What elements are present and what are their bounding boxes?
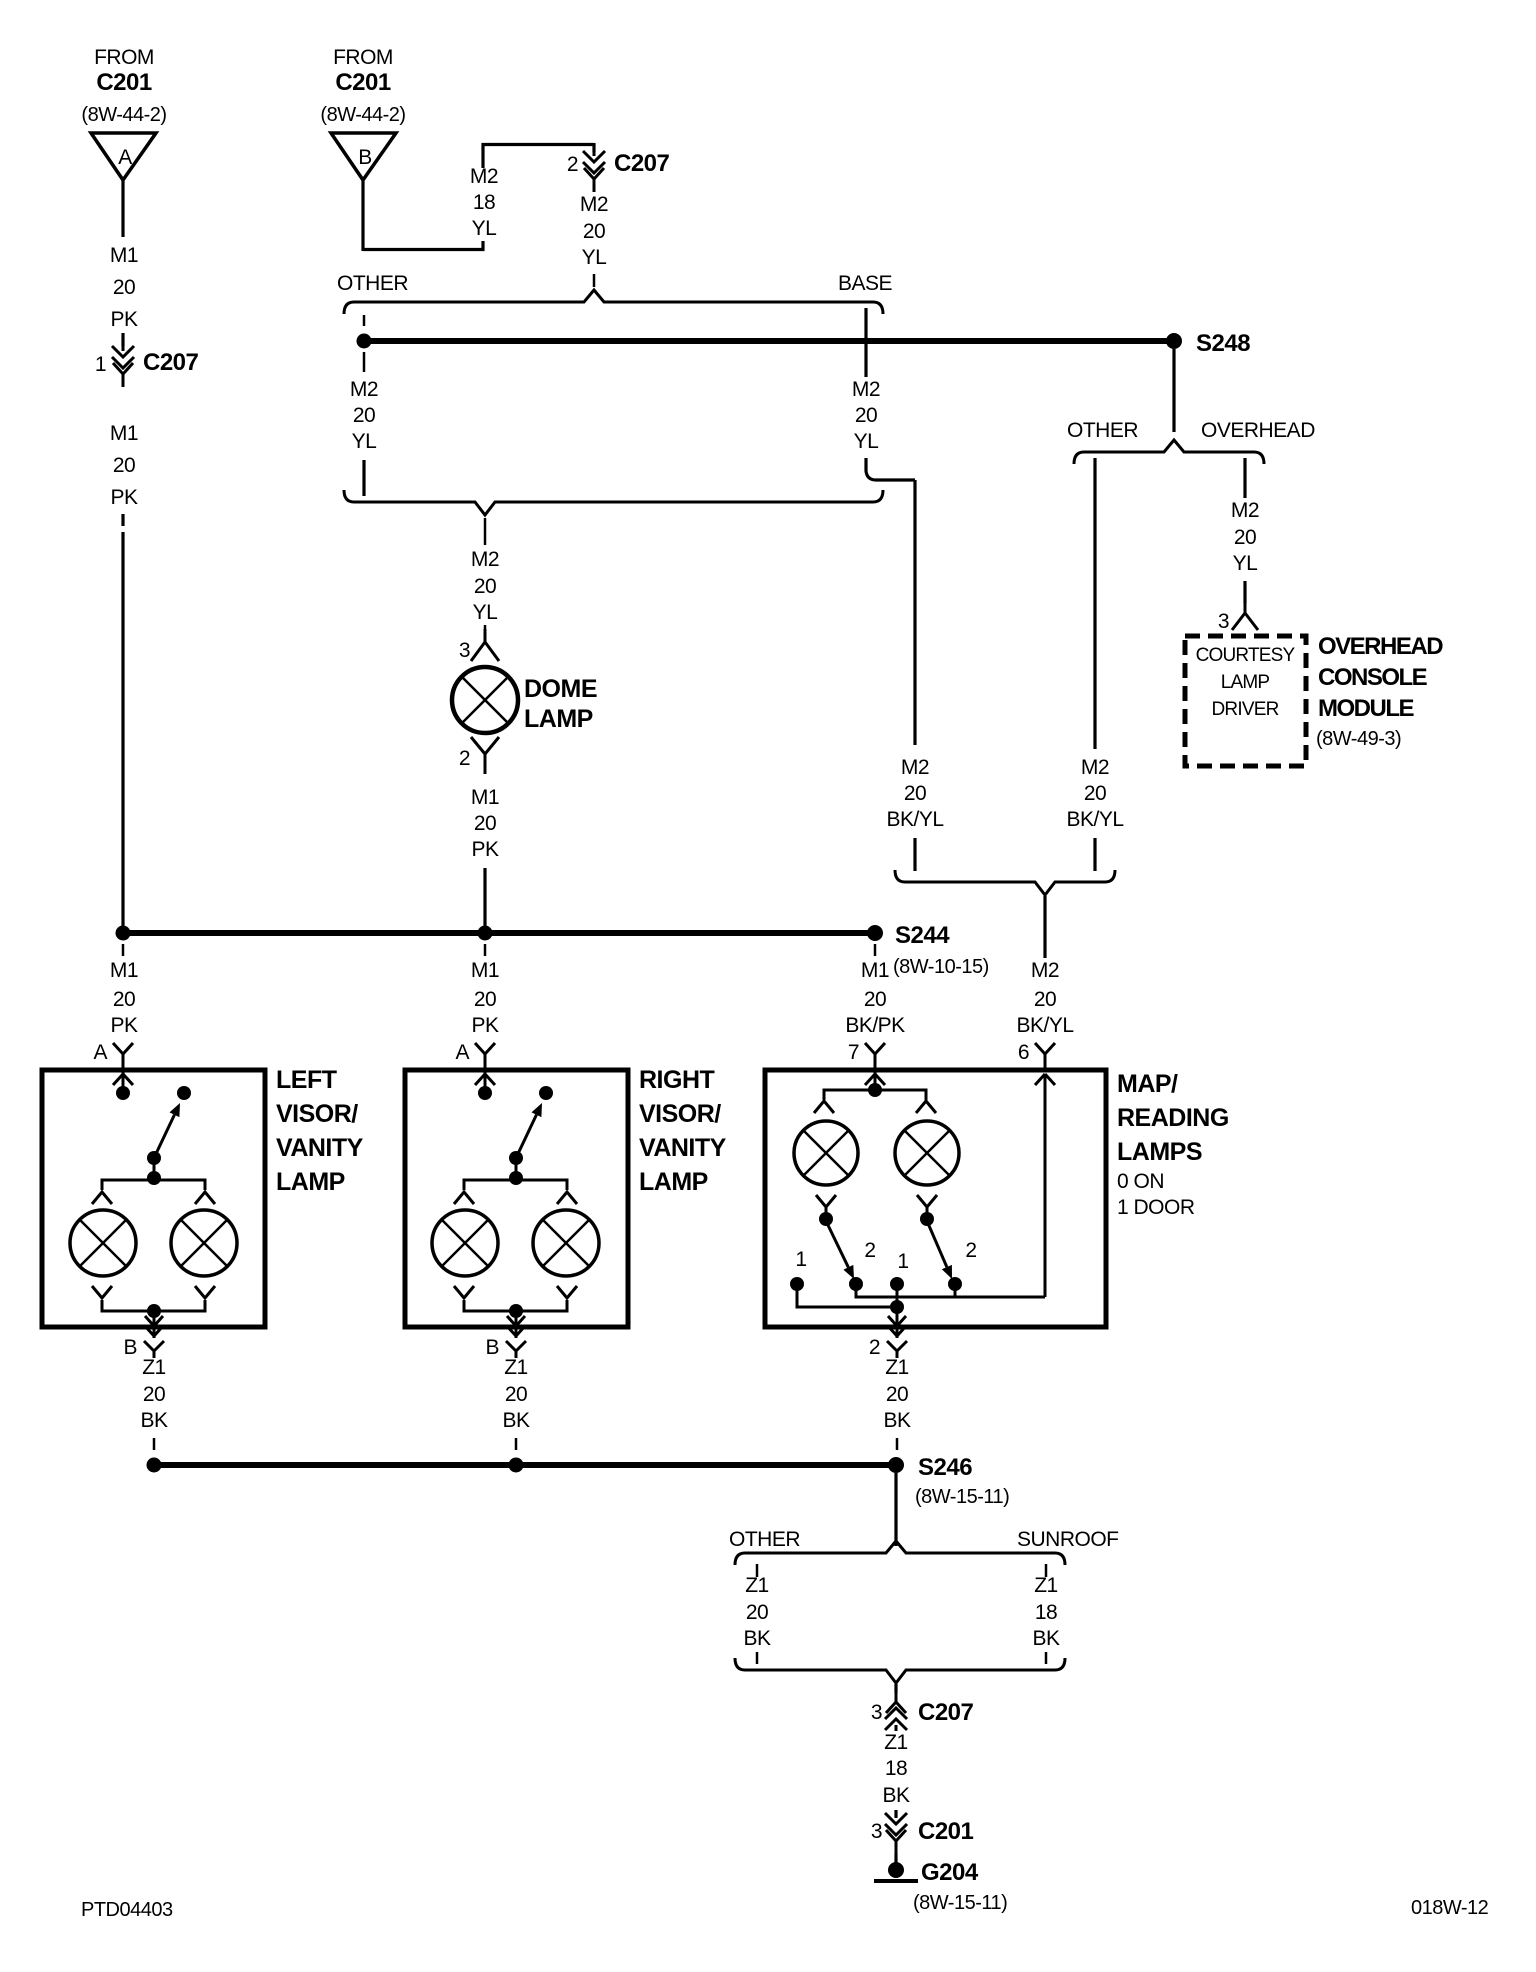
svg-text:PTD04403: PTD04403 xyxy=(81,1899,173,1921)
splice dot S244 middle xyxy=(478,926,493,941)
svg-text:BK: BK xyxy=(743,1627,771,1650)
wire dash below S244 middle xyxy=(484,944,487,956)
svg-text:S248: S248 xyxy=(1196,330,1250,357)
svg-text:B: B xyxy=(358,146,372,169)
splice bus wire S244 xyxy=(123,930,875,936)
svg-text:A: A xyxy=(455,1041,469,1064)
svg-text:1: 1 xyxy=(897,1250,908,1273)
map lamp 1 switch arm xyxy=(826,1221,848,1267)
svg-text:Z1: Z1 xyxy=(745,1574,769,1597)
right visor lamp bottom terminals xyxy=(454,1286,474,1298)
svg-text:BK/YL: BK/YL xyxy=(1066,808,1123,831)
right visor lamp 2 xyxy=(533,1210,599,1276)
wire from OTHER branch to merge bracket xyxy=(362,460,365,496)
connector C207 pin 1 xyxy=(122,345,125,351)
overhead console module box (dashed) xyxy=(1185,636,1306,766)
svg-text:S246: S246 xyxy=(918,1454,972,1481)
svg-text:6: 6 xyxy=(1018,1041,1029,1064)
svg-text:20: 20 xyxy=(474,988,496,1011)
svg-text:BK/YL: BK/YL xyxy=(1016,1014,1073,1037)
wire dash above split brace xyxy=(593,274,596,287)
splice dot S248 xyxy=(1166,333,1182,349)
splice dot S246 xyxy=(888,1457,904,1473)
wire from splice S248 down xyxy=(1172,349,1175,432)
pin fork at dome lamp pin 2 xyxy=(471,737,499,754)
wire from dome lamp to splice S244 xyxy=(483,868,486,926)
svg-text:C207: C207 xyxy=(143,349,199,376)
svg-text:PK: PK xyxy=(471,838,499,861)
right visor switch contact from pin A xyxy=(478,1086,492,1100)
svg-text:BASE: BASE xyxy=(838,272,893,295)
svg-text:LAMPS: LAMPS xyxy=(1117,1138,1202,1166)
svg-text:M2: M2 xyxy=(901,756,929,779)
svg-text:BK: BK xyxy=(883,1409,911,1432)
svg-text:M1: M1 xyxy=(110,959,138,982)
svg-text:BK: BK xyxy=(502,1409,530,1432)
split bracket OTHER/SUNROOF xyxy=(735,1541,1065,1565)
map switch contact 1 right xyxy=(890,1277,904,1291)
map lamps top terminals xyxy=(814,1101,834,1113)
svg-text:2: 2 xyxy=(567,153,578,176)
svg-text:20: 20 xyxy=(886,1383,908,1406)
pin fork at dome lamp pin 3 xyxy=(484,629,487,642)
left visor switch contact right xyxy=(177,1086,191,1100)
wire from S246 down xyxy=(894,1473,897,1546)
svg-text:COURTESY: COURTESY xyxy=(1196,645,1296,666)
pin 7 into map reading lamps box xyxy=(865,1043,885,1054)
svg-text:18: 18 xyxy=(473,191,495,214)
svg-text:20: 20 xyxy=(864,988,886,1011)
svg-text:VISOR/: VISOR/ xyxy=(639,1100,721,1128)
svg-text:C201: C201 xyxy=(96,69,152,96)
svg-text:C201: C201 xyxy=(918,1818,974,1845)
right visor lamp top terminals xyxy=(454,1192,474,1204)
left visor lamp 2 xyxy=(171,1210,237,1276)
connector C207 pin 3 xyxy=(895,1725,898,1731)
wire from triangle A down xyxy=(121,180,124,237)
right visor lamp 1 xyxy=(432,1210,498,1276)
map switch contact 2 right xyxy=(948,1277,962,1291)
left visor switch pivot xyxy=(147,1151,161,1165)
wire dash above S246 middle xyxy=(515,1438,518,1450)
left visor switch contact from pin A xyxy=(116,1086,130,1100)
merge bracket OTHER/BASE to dome xyxy=(344,490,883,515)
svg-text:M2: M2 xyxy=(580,193,608,216)
svg-text:YL: YL xyxy=(472,217,497,240)
svg-text:M1: M1 xyxy=(471,959,499,982)
svg-text:M1: M1 xyxy=(110,422,138,445)
connector C207 pin 2 xyxy=(593,150,596,156)
svg-text:Z1: Z1 xyxy=(885,1356,909,1379)
svg-text:20: 20 xyxy=(1034,988,1056,1011)
svg-text:M2: M2 xyxy=(350,378,378,401)
wire below label left riser xyxy=(913,838,916,871)
right visor switch pivot xyxy=(509,1151,523,1165)
map switch contact 1 left xyxy=(790,1277,804,1291)
svg-text:B: B xyxy=(123,1336,137,1359)
right visor switch contact right xyxy=(539,1086,553,1100)
right visor switch arm xyxy=(516,1115,536,1158)
left visor vanity lamp box xyxy=(42,1070,265,1327)
wire dash below Z1 20 BK xyxy=(756,1652,759,1664)
svg-text:Z1: Z1 xyxy=(504,1356,528,1379)
left visor lamp bracket top xyxy=(102,1180,205,1190)
svg-text:BK: BK xyxy=(1032,1627,1060,1650)
svg-text:YL: YL xyxy=(1233,552,1258,575)
wire dash below S244 left xyxy=(122,944,125,956)
map switch contact 2 left xyxy=(849,1277,863,1291)
svg-text:DRIVER: DRIVER xyxy=(1212,699,1279,720)
splice bus wire S248 xyxy=(364,338,1174,344)
svg-text:20: 20 xyxy=(505,1383,527,1406)
wire stub into C207 pin 2 xyxy=(592,143,595,152)
wire from triangle B down xyxy=(361,180,364,251)
svg-text:YL: YL xyxy=(854,430,879,453)
map lamp 2 switch arm xyxy=(927,1221,947,1267)
svg-text:SUNROOF: SUNROOF xyxy=(1017,1528,1119,1551)
svg-text:G204: G204 xyxy=(921,1859,979,1886)
left visor lamp top terminals xyxy=(92,1192,112,1204)
off-page connector triangle A xyxy=(91,133,156,180)
svg-text:BK/YL: BK/YL xyxy=(886,808,943,831)
wire connecting position-2 contacts xyxy=(856,1284,1045,1297)
svg-text:20: 20 xyxy=(1084,782,1106,805)
svg-text:C201: C201 xyxy=(335,69,391,96)
svg-text:VANITY: VANITY xyxy=(639,1134,727,1162)
svg-text:20: 20 xyxy=(855,404,877,427)
svg-text:20: 20 xyxy=(746,1601,768,1624)
wire BASE branch crossing bus xyxy=(864,308,867,377)
map lamp bottom terminals xyxy=(816,1195,836,1207)
svg-text:OTHER: OTHER xyxy=(729,1528,800,1551)
pin into left visor lamp box xyxy=(113,1043,133,1054)
svg-text:Z1: Z1 xyxy=(884,1731,908,1754)
wire from contact row to pin 2 xyxy=(896,1284,899,1311)
svg-text:BK: BK xyxy=(140,1409,168,1432)
svg-text:1 DOOR: 1 DOOR xyxy=(1117,1196,1195,1219)
svg-text:20: 20 xyxy=(353,404,375,427)
pin B out of right visor box xyxy=(515,1311,518,1338)
svg-text:FROM: FROM xyxy=(94,46,154,69)
svg-text:M2: M2 xyxy=(470,165,498,188)
svg-text:C207: C207 xyxy=(918,1699,974,1726)
pin 6 into map reading lamps box xyxy=(1035,1043,1055,1054)
map lamp 2 xyxy=(895,1121,959,1185)
wire from C207 pin 1 down to splice S244 xyxy=(121,532,124,926)
map lamp 2 switch input dot xyxy=(926,1207,929,1214)
svg-text:LAMP: LAMP xyxy=(639,1168,708,1196)
svg-text:OVERHEAD: OVERHEAD xyxy=(1201,419,1315,442)
wire dash below Z1 18 BK xyxy=(1045,1652,1048,1664)
svg-text:20: 20 xyxy=(143,1383,165,1406)
svg-text:M2: M2 xyxy=(852,378,880,401)
svg-text:2: 2 xyxy=(965,1239,976,1262)
svg-text:(8W-10-15): (8W-10-15) xyxy=(893,956,989,978)
svg-text:READING: READING xyxy=(1117,1104,1229,1132)
svg-text:1: 1 xyxy=(795,1248,806,1271)
svg-text:20: 20 xyxy=(1234,526,1256,549)
svg-text:M1: M1 xyxy=(110,244,138,267)
wire dash from merge bracket down xyxy=(484,518,487,545)
left visor lamp bracket bottom xyxy=(102,1300,205,1311)
split bracket OTHER/BASE xyxy=(344,290,883,314)
svg-text:M1: M1 xyxy=(471,786,499,809)
svg-text:BK: BK xyxy=(882,1784,910,1807)
svg-text:(8W-15-11): (8W-15-11) xyxy=(913,1892,1007,1914)
left visor switch arm xyxy=(154,1115,174,1158)
splice dot S246 middle xyxy=(509,1458,524,1473)
left visor lamp bottom terminals xyxy=(92,1286,112,1298)
wire below label right riser xyxy=(1093,838,1096,871)
wire dash below S244 right xyxy=(874,944,877,956)
svg-text:M2: M2 xyxy=(1231,499,1259,522)
svg-text:BK/PK: BK/PK xyxy=(845,1014,905,1037)
svg-text:20: 20 xyxy=(113,276,135,299)
svg-text:DOME: DOME xyxy=(524,675,597,703)
svg-text:Z1: Z1 xyxy=(1034,1574,1058,1597)
wire OTHER option of S248 down at x=1095 xyxy=(1093,458,1096,749)
svg-text:FROM: FROM xyxy=(333,46,393,69)
map lamps feed junction dot xyxy=(868,1083,882,1097)
split bracket OTHER/OVERHEAD xyxy=(1074,440,1264,464)
svg-text:VISOR/: VISOR/ xyxy=(276,1100,358,1128)
map lamps output junction dot xyxy=(890,1300,904,1314)
wire BASE branch elbow to x=915 xyxy=(866,458,915,480)
svg-text:M1: M1 xyxy=(861,959,889,982)
wire across top to C207 pin 2 xyxy=(482,143,595,146)
svg-text:2: 2 xyxy=(459,747,470,770)
wire connecting position-1 contacts xyxy=(797,1284,897,1307)
splice bus wire S246 xyxy=(154,1462,896,1468)
svg-text:20: 20 xyxy=(474,575,496,598)
wire dash above S246 right xyxy=(896,1438,899,1450)
svg-text:PK: PK xyxy=(471,1014,499,1037)
map lamp 1 xyxy=(794,1121,858,1185)
svg-text:YL: YL xyxy=(582,246,607,269)
right visor lamp bracket top xyxy=(464,1180,567,1190)
svg-text:M2: M2 xyxy=(1031,959,1059,982)
map reading lamps box xyxy=(765,1070,1106,1327)
svg-text:M2: M2 xyxy=(471,548,499,571)
right visor lamp bracket bottom xyxy=(464,1300,567,1311)
pin into right visor lamp box xyxy=(475,1043,495,1054)
wire dash below bracket to splice xyxy=(363,315,366,326)
svg-text:OVERHEAD: OVERHEAD xyxy=(1318,633,1443,660)
svg-text:LEFT: LEFT xyxy=(276,1066,337,1094)
svg-text:PK: PK xyxy=(110,308,138,331)
svg-text:3: 3 xyxy=(1218,610,1229,633)
svg-text:A: A xyxy=(118,146,132,169)
svg-text:20: 20 xyxy=(113,988,135,1011)
svg-text:VANITY: VANITY xyxy=(276,1134,364,1162)
svg-text:2: 2 xyxy=(864,1239,875,1262)
svg-text:2: 2 xyxy=(869,1336,880,1359)
right visor bottom junction dot xyxy=(509,1304,523,1318)
left visor bottom junction dot xyxy=(147,1304,161,1318)
svg-text:S244: S244 xyxy=(895,922,950,949)
svg-text:(8W-44-2): (8W-44-2) xyxy=(320,104,405,126)
wire above dome lamp pin 3 xyxy=(484,625,487,631)
splice dot S244 left xyxy=(116,926,131,941)
map lamp 1 switch input dot xyxy=(825,1207,828,1214)
svg-text:18: 18 xyxy=(1035,1601,1057,1624)
wire from pin 6 down inside box xyxy=(1044,1074,1047,1297)
pin fork at overhead console pin 3 xyxy=(1244,601,1247,613)
wire from BK/YL merge down to map lamps xyxy=(1043,896,1046,958)
map lamps top bracket xyxy=(824,1090,926,1100)
wire BASE option down at x=915 xyxy=(913,480,916,745)
svg-text:MODULE: MODULE xyxy=(1318,695,1414,722)
svg-text:20: 20 xyxy=(113,454,135,477)
pin 2 out of map lamps box xyxy=(896,1307,899,1338)
svg-text:3: 3 xyxy=(871,1701,882,1724)
svg-text:M2: M2 xyxy=(1081,756,1109,779)
svg-text:YL: YL xyxy=(352,430,377,453)
wire dash SUNROOF option xyxy=(1045,1564,1048,1577)
splice dot S244 xyxy=(867,925,883,941)
svg-text:1: 1 xyxy=(95,353,106,376)
dome lamp xyxy=(452,667,518,733)
wire above C201 pin 3 xyxy=(894,1810,897,1817)
svg-text:C207: C207 xyxy=(614,150,670,177)
svg-text:CONSOLE: CONSOLE xyxy=(1318,664,1428,691)
svg-text:B: B xyxy=(485,1336,499,1359)
svg-text:20: 20 xyxy=(583,220,605,243)
wire elbow B to riser xyxy=(363,248,485,251)
splice dot S246 left xyxy=(147,1458,162,1473)
svg-text:018W-12: 018W-12 xyxy=(1411,1897,1489,1919)
svg-text:0 ON: 0 ON xyxy=(1117,1170,1164,1193)
svg-text:A: A xyxy=(93,1041,107,1064)
wire OVERHEAD branch down xyxy=(1243,458,1246,498)
svg-text:LAMP: LAMP xyxy=(524,705,593,733)
svg-text:MAP/: MAP/ xyxy=(1117,1070,1178,1098)
svg-text:(8W-49-3): (8W-49-3) xyxy=(1316,728,1401,750)
svg-text:3: 3 xyxy=(871,1820,882,1843)
svg-text:20: 20 xyxy=(474,812,496,835)
svg-text:18: 18 xyxy=(885,1757,907,1780)
svg-text:7: 7 xyxy=(848,1041,859,1064)
svg-text:OTHER: OTHER xyxy=(337,272,408,295)
wire to ground G204 xyxy=(894,1854,897,1863)
right visor vanity lamp box xyxy=(405,1070,628,1327)
svg-text:(8W-44-2): (8W-44-2) xyxy=(81,104,166,126)
connector C201 pin 3 xyxy=(895,1812,898,1818)
svg-text:RIGHT: RIGHT xyxy=(639,1066,715,1094)
svg-text:PK: PK xyxy=(110,1014,138,1037)
wire dash below PK label xyxy=(121,514,124,526)
wire above courtesy lamp driver pin 3 xyxy=(1243,581,1246,603)
svg-text:20: 20 xyxy=(904,782,926,805)
svg-text:Z1: Z1 xyxy=(142,1356,166,1379)
svg-text:LAMP: LAMP xyxy=(276,1168,345,1196)
svg-text:OTHER: OTHER xyxy=(1067,419,1138,442)
wire dash OTHER option xyxy=(756,1564,759,1577)
svg-text:PK: PK xyxy=(110,486,138,509)
ground G204 symbol xyxy=(888,1862,904,1878)
merge bracket BK/YL wires xyxy=(895,870,1115,895)
left visor lamp 1 xyxy=(70,1210,136,1276)
off-page connector triangle B xyxy=(331,133,396,180)
svg-text:LAMP: LAMP xyxy=(1221,672,1270,693)
wire dash below OTHER splice dot xyxy=(363,352,366,372)
svg-text:YL: YL xyxy=(473,601,498,624)
svg-text:(8W-15-11): (8W-15-11) xyxy=(915,1486,1009,1508)
wire segment above C207 pin 1 xyxy=(121,333,124,346)
splice dot left end (OTHER branch) xyxy=(357,334,372,349)
wire from merge bracket to C207 pin 3 xyxy=(894,1684,897,1693)
wire dash above S246 left xyxy=(153,1438,156,1450)
merge bracket to C207 pin 3 xyxy=(735,1658,1065,1683)
svg-text:3: 3 xyxy=(459,639,470,662)
riser wire segments at x=483 xyxy=(481,143,484,168)
pin B out of left visor box xyxy=(153,1311,156,1338)
